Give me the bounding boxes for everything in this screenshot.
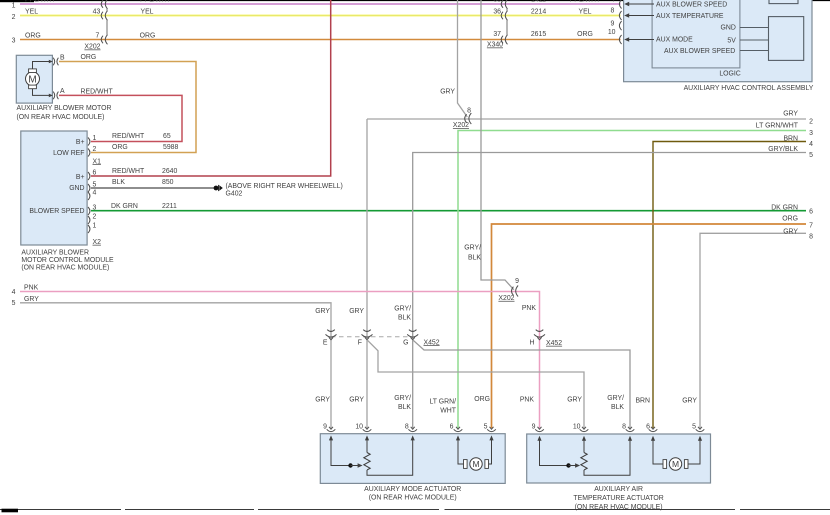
label A2 [573,486,663,511]
svg-text:M: M [28,75,36,86]
svg-text:5988: 5988 [163,144,178,151]
svg-text:6: 6 [450,423,454,430]
svg-text:DK GRN: DK GRN [111,203,138,210]
potentiometer R1 [364,453,370,471]
svg-text:TEMPERATURE ACTUATOR: TEMPERATURE ACTUATOR [573,495,663,502]
wire GRY branch F to actuator 2 pin 10 [367,340,584,428]
svg-text:BLK: BLK [398,315,411,322]
actuator A1 auxiliary mode actuator box [320,434,505,484]
svg-text:8: 8 [809,234,813,241]
svg-text:8: 8 [611,8,615,15]
svg-text:G: G [403,340,408,347]
connector X452-E [326,330,337,340]
svg-text:8: 8 [405,423,409,430]
svg-text:9: 9 [515,278,519,285]
svg-text:ORG: ORG [81,54,97,61]
A2 pin 6 arrow to motor M3 [651,436,663,464]
svg-text:X202: X202 [453,122,469,129]
svg-text:3: 3 [809,130,813,137]
svg-text:GND: GND [69,185,84,192]
U1 internal labels [656,1,736,55]
svg-text:AUXILIARY BLOWER MOTOR: AUXILIARY BLOWER MOTOR [17,105,112,112]
wire GRY/BLK from top into X202 pin 9 [464,0,514,290]
connector X202 pin 9 [498,278,519,302]
wire GRY row 5 to X452-E and actuator 1 pin 9 [20,296,331,428]
svg-text:AUX BLOWER SPEED: AUX BLOWER SPEED [664,48,735,55]
svg-text:MOTOR CONTROL MODULE: MOTOR CONTROL MODULE [21,257,114,264]
svg-text:LT GRN/WHT: LT GRN/WHT [756,122,799,129]
label G402 location [226,183,343,198]
clipped label fragments on cut row 1 [25,0,616,4]
ground splice G402 [214,185,223,191]
page bottom border [0,509,830,513]
svg-text:2211: 2211 [162,203,177,210]
wire RED/WHT 2640 to top [91,0,331,176]
svg-text:X2: X2 [93,239,102,246]
svg-text:GRY: GRY [349,308,364,315]
wire labels above actuator 1 [315,395,490,415]
wire ORG row 3 [20,33,621,40]
A2 pin 10 arrow [582,436,586,453]
svg-text:6: 6 [809,209,813,216]
svg-text:YEL: YEL [25,9,38,16]
svg-text:GRY/BLK: GRY/BLK [768,146,798,153]
A1 pot to pin 8 [367,440,413,476]
wire GRY row 2 (to F branch and right edge) [367,111,813,126]
svg-text:4: 4 [809,141,813,148]
svg-text:5: 5 [12,300,16,307]
pin 8/9/10 numbers at U1 [608,8,616,36]
wire GRY/BLK row 5 to X452-G [413,146,813,428]
page top border [0,0,830,2]
A1 pin 8 arrowhead [411,435,415,440]
wire GRY from top into X202 pin 8 [440,0,467,117]
wire YEL row 2 [20,9,621,16]
svg-text:2: 2 [93,146,97,153]
svg-text:5: 5 [484,423,488,430]
A1 pin 10 arrow [365,435,369,452]
A2 pot to pin 8 [584,440,630,476]
wire labels ORG 5988 [112,144,178,151]
svg-text:PNK: PNK [522,305,537,312]
svg-text:X452: X452 [546,340,562,347]
svg-text:3: 3 [12,38,16,45]
label U2 [21,249,114,271]
svg-text:LOGIC: LOGIC [719,70,740,77]
svg-text:PPL/WHT: PPL/WHT [25,0,56,4]
svg-text:1: 1 [93,135,97,142]
svg-text:AUXILIARY HVAC CONTROL ASSEMBL: AUXILIARY HVAC CONTROL ASSEMBLY [684,85,814,92]
svg-text:43: 43 [93,9,101,16]
svg-text:RED/WHT: RED/WHT [112,168,145,175]
A1 splice dot [348,463,352,467]
svg-text:A: A [60,88,65,95]
svg-text:PPL/WHT: PPL/WHT [140,0,171,4]
wire labels above actuator 2 [520,395,698,411]
A2 pin connector arcs [535,427,704,432]
svg-text:1411: 1411 [531,0,546,4]
svg-text:BRN: BRN [783,136,798,143]
svg-text:X202: X202 [498,295,514,302]
svg-text:ORG: ORG [577,31,593,38]
svg-text:(ABOVE RIGHT REAR WHEELWELL): (ABOVE RIGHT REAR WHEELWELL) [226,183,343,190]
svg-text:X340: X340 [487,42,503,49]
svg-text:7: 7 [809,223,813,230]
wire labels RED/WHT 65 [112,133,171,140]
svg-text:9: 9 [611,20,615,27]
svg-text:AUX BLOWER SPEED: AUX BLOWER SPEED [656,1,727,8]
svg-text:35: 35 [493,0,501,4]
svg-text:GRY: GRY [440,88,455,95]
svg-text:9: 9 [323,423,327,430]
svg-text:PNK: PNK [24,285,39,292]
svg-text:X452: X452 [424,339,440,346]
wire GRY vertical to X452-F and actuator 1 pin 10 [366,119,368,428]
svg-text:G402: G402 [226,191,243,198]
wire RED/WHT motor A to module pin 1 [59,88,182,141]
svg-text:7: 7 [96,33,100,40]
svg-text:BLK: BLK [611,404,624,411]
A1 pin 6 arrow to motor M2 [456,435,464,464]
connector X452-F [362,330,373,340]
svg-text:GRY/: GRY/ [394,395,411,402]
svg-text:GRY: GRY [24,296,39,303]
motor M3 [663,458,688,470]
svg-text:AUXILIARY MODE ACTUATOR: AUXILIARY MODE ACTUATOR [364,486,461,493]
svg-text:8: 8 [622,423,626,430]
svg-text:BLK: BLK [112,179,125,186]
op HVAC control assembly box U1 [624,0,812,82]
svg-text:GRY: GRY [783,228,798,235]
svg-text:F: F [358,340,362,347]
svg-text:2615: 2615 [531,31,546,38]
connector X340 (rows 1-3) [501,0,507,44]
U2 pin arcs X1 [88,138,90,234]
svg-text:PPL/WHT: PPL/WHT [570,0,601,4]
svg-text:GRY: GRY [315,397,330,404]
A2 pin numbers 9 10 8 6 5 [532,423,697,430]
svg-text:ORG: ORG [25,33,41,40]
svg-text:E: E [323,340,328,347]
wire ORG row 7 to actuator 1 pin 5 [492,215,814,428]
svg-text:RED/WHT: RED/WHT [112,133,145,140]
svg-text:YEL: YEL [578,9,591,16]
svg-text:(ON REAR HVAC MODULE): (ON REAR HVAC MODULE) [17,114,105,121]
connector X202 pin 8 [453,107,471,129]
motor M2 [464,458,489,470]
A1 pin numbers 9 10 8 6 5 [323,423,488,430]
A1 wiper arrow into potentiometer R1 [351,463,363,467]
svg-text:PNK: PNK [520,397,535,404]
actuator A2 auxiliary air temperature actuator box [527,434,711,483]
wire PNK row 4 to X452-H and actuator 2 pin 9 [20,285,540,429]
pin B connector of M1 [53,54,65,65]
arrow into AUX MODE [624,37,654,41]
svg-text:ORG: ORG [782,215,798,222]
wire LT GRN/WHT row 3 to actuator 1 pin 6 [458,122,813,428]
A2 pin 5 arrow to motor M3 [688,436,702,464]
svg-text:9: 9 [532,423,536,430]
svg-text:BLK: BLK [398,404,411,411]
pin A connector of M1 [53,88,65,99]
svg-text:(ON REAR HVAC MODULE): (ON REAR HVAC MODULE) [21,265,109,272]
svg-text:1: 1 [12,3,16,10]
svg-text:2: 2 [809,118,813,125]
module U2 auxiliary blower motor control module box [21,131,87,245]
svg-text:37: 37 [493,31,501,38]
svg-text:BLK: BLK [468,255,481,262]
wire GND to regulator [740,27,769,29]
potentiometer R2 [581,453,587,471]
svg-text:2640: 2640 [162,168,177,175]
A2 splice dot [566,463,570,467]
motor M1 auxiliary blower motor box [16,55,53,103]
wire PPL/WHT row 1 [20,3,621,5]
label M1 [17,105,112,121]
svg-text:H: H [530,340,535,347]
svg-text:5: 5 [93,181,97,188]
connector X202 (left, rows 1-3) [101,0,107,44]
A1 pin 5 arrow to motor M2 [489,435,494,464]
svg-text:B+: B+ [76,139,85,146]
svg-text:WHT: WHT [440,408,456,415]
arrow into AUX TEMPERATURE [624,13,654,17]
A1 pin 9 arrow and wiper feed [329,435,351,465]
wire DK GRN 2211 row 6 [91,203,806,211]
svg-text:ORG: ORG [140,33,156,40]
svg-text:2: 2 [12,14,16,21]
wire 5V to regulator [740,39,769,41]
svg-text:GRY/: GRY/ [394,306,411,313]
wire ORG motor B to module pin 2 [59,54,196,152]
svg-text:BLOWER SPEED: BLOWER SPEED [29,208,84,215]
A2 wiper arrow into potentiometer R2 [569,463,581,467]
svg-text:65: 65 [163,133,171,140]
svg-text:4: 4 [12,289,16,296]
svg-text:AUXILIARY BLOWER: AUXILIARY BLOWER [21,249,89,256]
svg-text:1: 1 [93,222,97,229]
svg-text:GRY: GRY [567,397,582,404]
svg-text:B: B [60,54,65,61]
svg-text:X202: X202 [84,44,100,51]
connector X452-H [534,330,545,340]
svg-text:M: M [472,459,479,469]
svg-text:7: 7 [612,0,616,4]
wire GRY row 8 to actuator 2 pin 5 [700,228,813,428]
svg-text:8: 8 [467,107,471,114]
labels above X452 connectors [315,305,536,322]
svg-text:M: M [672,459,679,469]
svg-text:GRY/: GRY/ [607,395,624,402]
svg-text:RED/WHT: RED/WHT [81,88,114,95]
svg-text:4: 4 [93,189,97,196]
svg-text:2214: 2214 [531,9,546,16]
svg-text:ORG: ORG [112,144,128,151]
svg-text:GRY/: GRY/ [464,245,481,252]
wire AUX BLOWER SPEED to regulator [740,50,769,52]
svg-text:BRN: BRN [635,398,650,405]
A2 pin 9 arrow and wiper feed [537,436,568,466]
svg-text:6: 6 [646,423,650,430]
svg-text:2: 2 [93,213,97,220]
svg-text:LOW REF: LOW REF [53,150,84,157]
wire GRY/BLK branch G to actuator 2 pin 8 [413,340,630,428]
svg-text:LT GRN/: LT GRN/ [429,399,456,406]
svg-text:GRY: GRY [349,397,364,404]
svg-text:10: 10 [355,423,363,430]
svg-text:GRY: GRY [783,111,798,118]
svg-text:AUX TEMPERATURE: AUX TEMPERATURE [656,13,724,20]
svg-text:GND: GND [720,25,735,32]
arrow into AUX BLOWER SPEED [624,2,654,6]
svg-text:GRY: GRY [682,398,697,405]
U2 pin numbers [93,135,97,230]
svg-text:10: 10 [608,29,616,36]
svg-text:B+: B+ [76,174,85,181]
svg-text:YEL: YEL [140,9,153,16]
svg-text:(ON REAR HVAC MODULE): (ON REAR HVAC MODULE) [369,495,457,502]
svg-text:5: 5 [809,152,813,159]
svg-text:10: 10 [573,423,581,430]
U2 internal pin labels [29,139,84,215]
svg-text:ORG: ORG [474,396,490,403]
svg-text:AUX MODE: AUX MODE [656,37,693,44]
svg-text:5V: 5V [727,37,736,44]
label A1 [364,486,461,502]
svg-text:AUXILIARY AIR: AUXILIARY AIR [594,486,643,493]
A2 pin 8 arrowhead [628,436,632,441]
svg-text:GRY: GRY [315,308,330,315]
svg-text:5: 5 [692,423,696,430]
pin arcs at U1 left edge [619,0,621,44]
connector X452-G [407,330,418,340]
A1 pin connector arcs [327,427,496,432]
svg-text:36: 36 [493,9,501,16]
wire BRN row 4 to actuator 2 pin 6 [653,136,813,428]
wire BLK 850 to ground [91,179,214,188]
dashed connector line X452 [331,336,413,338]
svg-text:DK GRN: DK GRN [771,205,798,212]
svg-text:X1: X1 [93,158,102,165]
svg-text:850: 850 [162,179,174,186]
